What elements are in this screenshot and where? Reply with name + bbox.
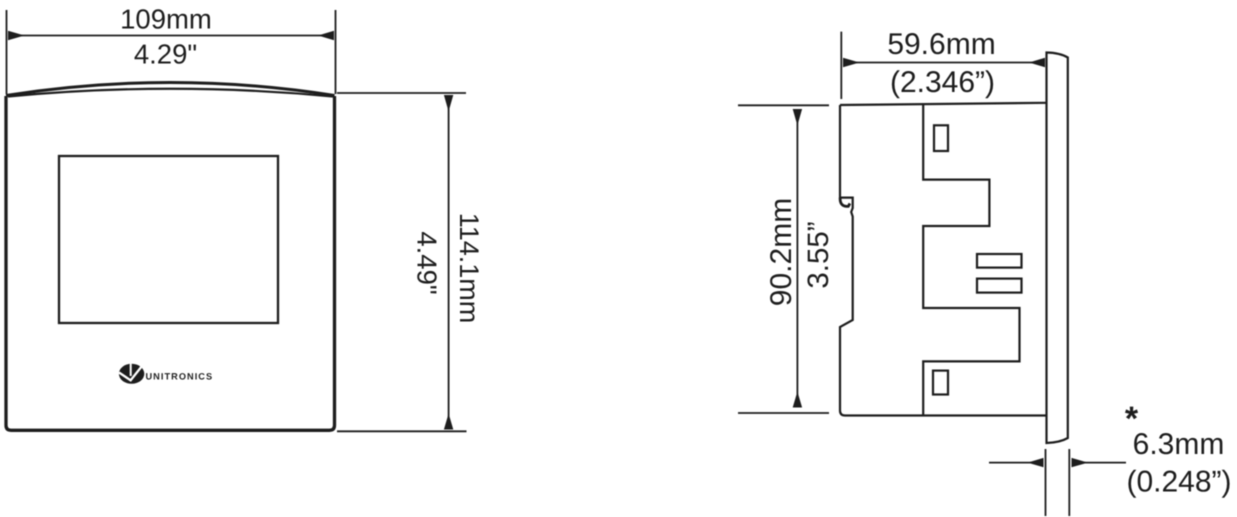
extension line right (6.3mm) xyxy=(1068,449,1070,516)
vent slot upper xyxy=(977,254,1022,268)
front view screen window xyxy=(59,156,278,323)
arrow left pointing right (6.3mm) xyxy=(989,462,1043,464)
dimension line 114.1mm xyxy=(448,96,450,430)
extension line right (109mm) xyxy=(335,10,337,94)
svg-text:4.29": 4.29" xyxy=(134,39,197,70)
dimension line 109mm xyxy=(9,35,334,37)
front view panel outline xyxy=(6,83,335,431)
arrow right pointing left (6.3mm) xyxy=(1072,462,1126,464)
extension line left (109mm) xyxy=(6,10,8,94)
dimension line 90.2mm xyxy=(796,110,798,408)
Unitronics logo mark xyxy=(119,362,145,384)
side view dimension line 59.6mm xyxy=(844,62,1045,64)
top clip slot xyxy=(934,125,948,151)
svg-text:(0.248”): (0.248”) xyxy=(1126,466,1231,499)
svg-text:59.6mm: 59.6mm xyxy=(887,28,995,61)
side view body outline with DIN rail profile xyxy=(840,103,1047,416)
svg-text:3.55”: 3.55” xyxy=(802,221,835,288)
extension line top (114.1mm) xyxy=(337,92,466,94)
side view extension line left (59.6mm) xyxy=(840,32,842,99)
bottom clip slot xyxy=(933,371,948,395)
svg-text:90.2mm: 90.2mm xyxy=(765,198,798,306)
extension line bottom (90.2mm) xyxy=(738,412,829,414)
side view inner stepped wall xyxy=(923,104,1019,415)
svg-text:109mm: 109mm xyxy=(120,4,212,35)
svg-text:6.3mm: 6.3mm xyxy=(1133,428,1225,461)
extension line left (6.3mm) xyxy=(1045,449,1047,516)
vent slot lower xyxy=(977,279,1022,293)
front bezel flange xyxy=(1047,53,1068,444)
extension line top (90.2mm) xyxy=(738,104,829,106)
svg-text:4.49": 4.49" xyxy=(412,231,443,294)
svg-text:(2.346”): (2.346”) xyxy=(890,66,995,99)
svg-text:UNITRONICS: UNITRONICS xyxy=(146,371,214,381)
extension line bottom (114.1mm) xyxy=(337,430,467,432)
svg-text:114.1mm: 114.1mm xyxy=(454,213,484,324)
